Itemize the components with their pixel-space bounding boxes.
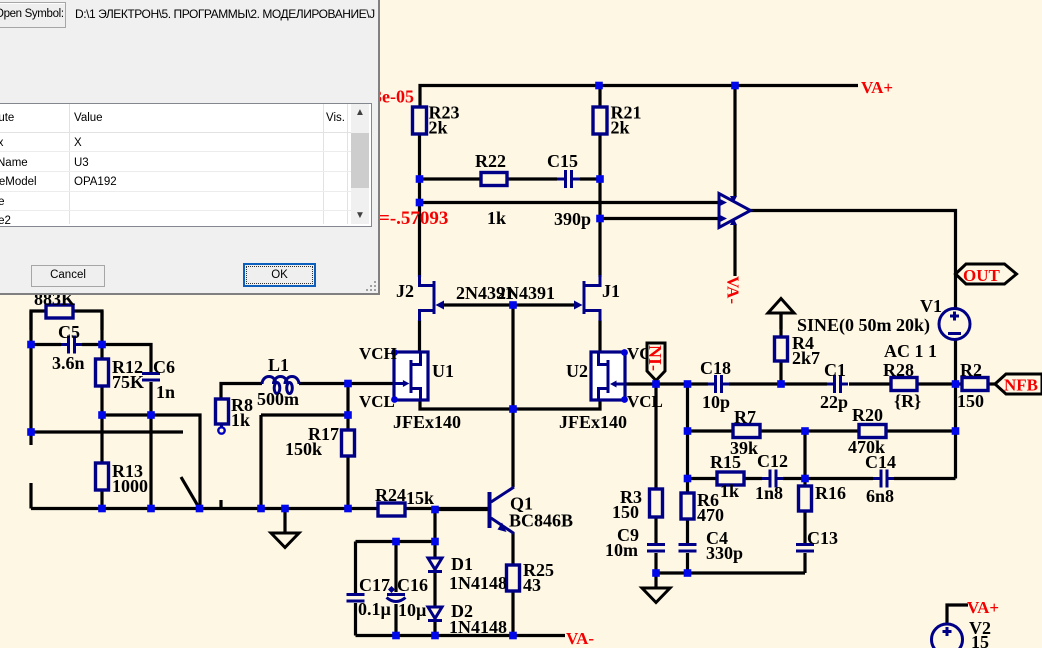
- wire small tick x221: [219, 500, 222, 509]
- resistor R8: [216, 395, 254, 434]
- svg-text:10µ: 10µ: [398, 600, 427, 620]
- svg-text:1k: 1k: [720, 481, 739, 501]
- svg-text:VCL: VCL: [359, 392, 395, 411]
- svg-text:150k: 150k: [285, 439, 322, 459]
- junction inverting input node: [596, 215, 604, 223]
- resistor R28: [883, 360, 921, 411]
- svg-text:470: 470: [697, 505, 724, 525]
- wire R22/C15 row: [420, 177, 601, 180]
- resistor R15: [710, 452, 744, 501]
- svg-text:R20: R20: [852, 405, 883, 425]
- svg-text:R15: R15: [710, 452, 741, 472]
- junction VA- rail C16: [392, 632, 400, 640]
- wire V2 to VA+: [947, 605, 968, 624]
- capacitor C17: [347, 575, 392, 619]
- wire top supply rail VA+: [420, 86, 858, 108]
- junction noninverting input node: [416, 199, 424, 207]
- wire diagonal stub: [181, 477, 200, 509]
- svg-text:15k: 15k: [406, 488, 434, 508]
- wire L1 right to R17 node: [299, 382, 348, 385]
- wire R17 column: [346, 384, 349, 509]
- wire mid row y415 right: [261, 415, 348, 509]
- capacitor C13: [796, 528, 838, 553]
- wire Q1 emitter to R25: [511, 533, 514, 636]
- capacitor C5: [52, 322, 85, 373]
- capacitor C4: [679, 528, 744, 563]
- resistor R3: [612, 487, 663, 522]
- svg-text:OUT: OUT: [963, 266, 1001, 285]
- svg-text:1000: 1000: [112, 476, 148, 496]
- svg-text:L1: L1: [268, 355, 289, 375]
- wire R4 column: [779, 313, 782, 384]
- svg-text:1n8: 1n8: [755, 483, 783, 503]
- wire R23 column: [418, 134, 421, 277]
- resistor R23: [413, 103, 460, 138]
- label 2N4391 for J1: [497, 283, 555, 303]
- svg-text:C15: C15: [547, 151, 578, 171]
- wire tail node to Q1 collector: [511, 409, 514, 487]
- junction VA- rail D2: [431, 632, 439, 640]
- wire op-amp inverting input row: [600, 217, 719, 220]
- net arrow flag above R4: [768, 299, 794, 330]
- svg-text:150: 150: [612, 502, 639, 522]
- junction left column C5 left: [27, 341, 35, 349]
- wire ground mini rail: [656, 571, 805, 574]
- svg-text:U1: U1: [432, 361, 454, 381]
- wire Q1 base lead: [435, 508, 488, 511]
- svg-text:1n: 1n: [156, 382, 175, 402]
- svg-text:VA+: VA+: [861, 78, 893, 97]
- capacitor C14: [865, 452, 896, 506]
- svg-text:J1: J1: [602, 281, 620, 301]
- svg-text:JFEx140: JFEx140: [393, 412, 461, 432]
- resistor 883K: [34, 289, 75, 318]
- resistor R22: [475, 151, 507, 228]
- junction L1-R17-U1 gate node: [344, 380, 352, 388]
- voltage source V2: [932, 618, 992, 648]
- junction R2-V1 node: [952, 380, 960, 388]
- junction R24-Q1 base node: [431, 506, 439, 514]
- svg-text:43: 43: [523, 575, 541, 595]
- wire R21 top stub: [598, 86, 601, 108]
- junction R7 left node: [684, 427, 692, 435]
- transistor Q1: [488, 487, 574, 534]
- wire op-amp noninverting input row: [420, 201, 720, 204]
- svg-text:2N4391: 2N4391: [497, 283, 555, 303]
- junction bottom rail C6 column: [147, 505, 155, 513]
- wire V1 column: [954, 340, 957, 479]
- svg-text:AC 1 1: AC 1 1: [884, 341, 937, 361]
- junction bottom rail R13: [98, 505, 106, 513]
- wire R16/C13 column: [803, 431, 806, 573]
- svg-text:=-.57093: =-.57093: [379, 208, 448, 229]
- svg-text:C12: C12: [757, 451, 788, 471]
- resistor R2: [957, 360, 988, 411]
- svg-text:390p: 390p: [554, 209, 591, 229]
- svg-text:C14: C14: [865, 452, 896, 472]
- svg-text:1N4148: 1N4148: [449, 573, 507, 593]
- wire C16 column: [394, 542, 397, 636]
- resistor R13: [96, 461, 149, 496]
- junction top rail / R21: [595, 82, 603, 90]
- wire R3/C9 column: [654, 384, 657, 573]
- svg-text:75K: 75K: [112, 372, 144, 392]
- junction bottom rail ground stub: [281, 505, 289, 513]
- svg-text:1k: 1k: [487, 208, 506, 228]
- junction VA- rail R25: [509, 632, 517, 640]
- voltage source V1: [797, 296, 970, 361]
- wire main feedback rail: [656, 382, 995, 385]
- svg-text:2k: 2k: [611, 118, 630, 138]
- wire J2 source to U1 drain: [418, 320, 421, 353]
- junction C6 bottom node: [147, 411, 155, 419]
- label 2N4391 for J2: [456, 283, 514, 303]
- resistor R17: [285, 424, 355, 459]
- wire L1 left / R8 branch: [221, 384, 262, 400]
- svg-text:1k: 1k: [231, 410, 250, 430]
- svg-text:10p: 10p: [702, 392, 730, 412]
- svg-text:R22: R22: [475, 151, 506, 171]
- JFET block U2: [559, 344, 665, 432]
- svg-text:C6: C6: [153, 357, 175, 377]
- resistor R24: [375, 485, 434, 516]
- svg-text:NFB: NFB: [1004, 376, 1038, 395]
- diode D2: [428, 601, 507, 637]
- wire U1-U2 source rail: [420, 399, 600, 409]
- junction R20 right node: [952, 427, 960, 435]
- svg-text:R2: R2: [960, 360, 982, 380]
- inductor L1: [257, 355, 299, 409]
- svg-text:J2: J2: [396, 281, 414, 301]
- wire C6 branch: [102, 345, 151, 509]
- wire R6/C4 column: [686, 384, 689, 573]
- resistor R7: [730, 407, 760, 458]
- svg-text:C5: C5: [58, 322, 80, 342]
- svg-text:R16: R16: [815, 483, 846, 503]
- svg-text:330p: 330p: [706, 543, 743, 563]
- junction R4 bottom node: [777, 380, 785, 388]
- svg-text:6n8: 6n8: [866, 486, 894, 506]
- net label VA+ top: [861, 78, 893, 97]
- resistor R6: [681, 490, 724, 525]
- svg-text:10m: 10m: [605, 540, 638, 560]
- resistor R16: [799, 483, 847, 511]
- op-amp U3: [719, 194, 751, 228]
- red annotation 8e-05: [373, 87, 414, 107]
- junction C18 left node: [684, 380, 692, 388]
- svg-text:D1: D1: [451, 554, 473, 574]
- wire left column x31: [29, 311, 32, 509]
- svg-text:0.1µ: 0.1µ: [358, 599, 392, 619]
- wire op-amp V+ pin: [733, 86, 736, 197]
- svg-text:150: 150: [957, 391, 984, 411]
- wire VA- bottom rail: [356, 634, 566, 637]
- svg-text:V1: V1: [920, 296, 942, 316]
- junction C15-R21 node: [596, 175, 604, 183]
- junction U1-U2 source tail node: [509, 405, 517, 413]
- svg-text:R28: R28: [883, 360, 914, 380]
- resistor R25: [507, 560, 555, 595]
- wire R21/J1 column: [598, 134, 601, 277]
- resistor R12: [96, 357, 145, 392]
- wire 883K loop top: [31, 311, 102, 330]
- junction R7-R20-R16 node: [801, 427, 809, 435]
- svg-text:2k7: 2k7: [792, 348, 820, 368]
- junction C5-R12 node: [98, 341, 106, 349]
- junction bottom rail R17: [344, 505, 352, 513]
- svg-text:C13: C13: [807, 528, 838, 548]
- diode D1: [428, 554, 507, 593]
- svg-text:15: 15: [971, 632, 989, 648]
- ground right: [642, 573, 670, 603]
- JFET J1: [574, 275, 620, 321]
- junction J2-J1 gate node: [509, 301, 517, 309]
- net flag NFB: [995, 374, 1042, 395]
- resistor R20: [848, 405, 886, 457]
- resistor R21: [593, 103, 642, 138]
- wire U2 gate lead: [624, 382, 656, 385]
- net label VA- op-amp: [724, 276, 743, 304]
- JFET J2: [396, 275, 444, 321]
- svg-text:JFEx140: JFEx140: [559, 412, 627, 432]
- net flag OUT: [956, 264, 1017, 285]
- svg-text:U2: U2: [566, 361, 588, 381]
- svg-text:500m: 500m: [257, 389, 299, 409]
- net flag -IN: [645, 343, 665, 381]
- net label VA+ bottom right: [967, 598, 999, 617]
- junction top rail / op-amp V+: [731, 82, 739, 90]
- wire C5 row: [31, 343, 102, 346]
- capacitor C18: [700, 358, 731, 412]
- wire C17 column: [354, 542, 357, 636]
- ground left: [271, 509, 299, 548]
- wire diode branch top: [356, 510, 436, 558]
- junction left column y432: [27, 428, 35, 436]
- svg-text:R24: R24: [375, 485, 406, 505]
- svg-text:C16: C16: [397, 575, 428, 595]
- junction bottom rail diagonal: [196, 505, 204, 513]
- net label VA- bottom: [566, 629, 594, 648]
- wire op-amp output to OUT/V1: [750, 211, 956, 309]
- wire left column x102: [100, 311, 103, 509]
- wire mid row y415 left: [102, 415, 200, 509]
- svg-text:BC846B: BC846B: [509, 511, 573, 531]
- svg-text:{R}: {R}: [894, 391, 921, 411]
- wire U1 gate lead: [348, 382, 395, 385]
- wire R15/C12/C14 row: [688, 477, 956, 480]
- svg-text:VA-: VA-: [566, 629, 594, 648]
- svg-text:VA-: VA-: [724, 276, 743, 304]
- JFET block U1: [359, 344, 461, 432]
- capacitor C1: [820, 360, 848, 412]
- resistor R4: [775, 333, 821, 368]
- junction D1 top node: [431, 538, 439, 546]
- red annotation =-.57093: [379, 208, 448, 229]
- capacitor C9: [605, 525, 665, 560]
- junction -IN node: [652, 380, 660, 388]
- junction R23-R22 node: [416, 175, 424, 183]
- wire op-amp V- pin: [733, 225, 736, 276]
- svg-text:VA+: VA+: [967, 598, 999, 617]
- junction ground rail C4: [684, 569, 692, 577]
- junction bottom rail x261: [257, 505, 265, 513]
- wire bottom left ground rail: [31, 507, 488, 510]
- junction ground rail left: [652, 569, 660, 577]
- capacitor C16 polarized: [387, 575, 429, 620]
- wire J2/J1 gate row: [443, 303, 576, 306]
- svg-text:VCL: VCL: [627, 392, 663, 411]
- junction C16 top node: [392, 538, 400, 546]
- wire J1 source to U2 drain: [598, 320, 601, 353]
- junction R12 bottom node: [98, 411, 106, 419]
- wire R7/R20 row: [688, 429, 956, 432]
- capacitor C15: [547, 151, 591, 229]
- svg-text:NI-: NI-: [645, 345, 665, 371]
- capacitor C12: [755, 451, 788, 503]
- svg-text:C18: C18: [700, 358, 731, 378]
- wire dangling row y432: [31, 430, 183, 433]
- capacitor C6: [142, 357, 175, 402]
- svg-text:R7: R7: [734, 407, 756, 427]
- svg-text:2k: 2k: [429, 118, 448, 138]
- junction R15 left node: [684, 475, 692, 483]
- svg-text:1N4148: 1N4148: [449, 617, 507, 637]
- svg-text:3.6n: 3.6n: [52, 353, 85, 373]
- junction R17 top row node: [344, 411, 352, 419]
- wire D1-D2 link: [433, 572, 436, 636]
- svg-text:SINE(0 50m 20k): SINE(0 50m 20k): [797, 315, 930, 336]
- svg-text:22p: 22p: [820, 392, 848, 412]
- junction C12-R16 node: [801, 475, 809, 483]
- wire gate node down to source rail: [511, 305, 514, 409]
- svg-text:C17: C17: [359, 575, 390, 595]
- svg-text:VCH: VCH: [359, 344, 397, 363]
- svg-text:C1: C1: [824, 360, 846, 380]
